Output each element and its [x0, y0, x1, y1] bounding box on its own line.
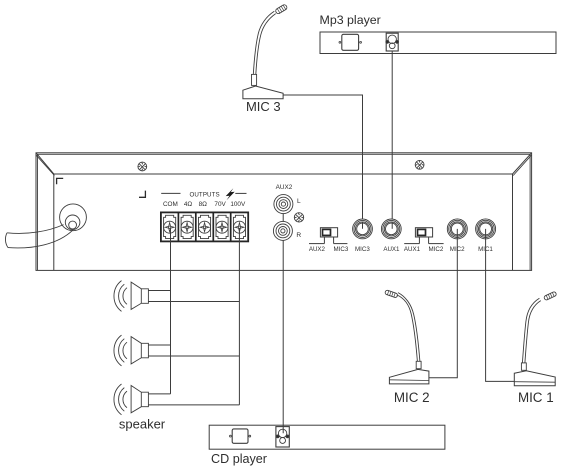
screw top-left	[138, 162, 147, 171]
svg-text:MIC 3: MIC 3	[246, 99, 281, 114]
microphone MIC 3 head	[275, 4, 288, 15]
CD player audio-out jack	[276, 427, 289, 447]
svg-text:MIC 2: MIC 2	[394, 390, 430, 405]
svg-text:speaker: speaker	[119, 416, 166, 431]
wire COM terminal to speakers bus A	[170, 228, 172, 394]
terminal cell 4 clamp	[216, 215, 228, 238]
svg-text:4Ω: 4Ω	[184, 201, 193, 208]
microphone MIC 1 base	[514, 371, 555, 386]
microphone MIC 2 gooseneck	[397, 295, 418, 362]
RCA jack AUX2 L	[274, 195, 293, 214]
wire end inside AUX1 jack	[391, 222, 393, 229]
terminal cell 5 clamp	[233, 215, 245, 238]
wire Mp3 player to AUX1 jack	[391, 51, 393, 229]
svg-text:MIC 1: MIC 1	[518, 390, 554, 405]
jack socket MIC3	[353, 219, 373, 239]
wire MIC2 jack to MIC 2	[429, 229, 457, 378]
amplifier chassis bevel top-left	[36, 153, 54, 174]
svg-text:Mp3 player: Mp3 player	[320, 13, 381, 27]
terminal cell 2 clamp	[181, 215, 193, 238]
svg-text:AUX1: AUX1	[404, 246, 421, 253]
power cord ribbon	[7, 225, 64, 234]
microphone MIC 1 gooseneck	[522, 298, 539, 363]
svg-text:CD player: CD player	[211, 452, 267, 466]
slide switch AUX2/MIC3	[320, 228, 337, 237]
svg-text:MIC3: MIC3	[355, 246, 370, 253]
svg-text:AUX2: AUX2	[309, 246, 326, 253]
svg-text:8Ω: 8Ω	[199, 201, 208, 208]
microphone MIC 3 gooseneck	[253, 11, 274, 74]
speaker 3 wire top	[148, 393, 170, 395]
terminal cell 1 screw	[164, 221, 176, 233]
speaker 2 sound waves	[123, 342, 127, 359]
speaker 2 wire bottom	[148, 355, 239, 357]
lightning bolt	[226, 188, 235, 200]
screw between RCA jacks	[294, 213, 303, 222]
wire MIC 3 to MIC3 jack	[283, 95, 362, 229]
microphone MIC 2 neck collar	[416, 361, 421, 368]
speaker 1 horn	[131, 282, 148, 309]
svg-text:MIC2: MIC2	[429, 246, 444, 253]
svg-text:AUX2: AUX2	[276, 184, 293, 191]
CD player box	[209, 425, 445, 449]
speaker 1 sound waves	[123, 288, 127, 305]
corner bracket mark top-left	[57, 178, 64, 184]
wire end inside MIC3 jack	[362, 222, 364, 229]
terminal cell 3 clamp	[199, 215, 211, 238]
microphone MIC 3 base	[243, 86, 283, 99]
terminal cell 1 clamp	[164, 215, 176, 238]
terminal cell 3 screw	[199, 221, 211, 233]
speaker 1 wire top	[148, 290, 170, 292]
Mp3 player USB connector	[342, 34, 359, 50]
svg-text:100V: 100V	[230, 201, 246, 208]
speaker terminal block	[161, 212, 248, 241]
terminal cell 2 screw	[181, 221, 193, 233]
microphone MIC 2 base	[389, 369, 429, 384]
speaker 3 sound waves	[123, 391, 127, 408]
Mp3 player audio-out jack	[386, 33, 399, 51]
amplifier chassis outer box	[36, 153, 532, 271]
microphone MIC 1 neck collar	[521, 363, 526, 370]
terminal labels COM 4ohm 8ohm 70V 100V	[163, 201, 246, 208]
OUTPUTS header dash right	[235, 192, 246, 194]
wire AUX2 L to R	[282, 214, 284, 222]
svg-text:AUX1: AUX1	[383, 246, 400, 253]
amplifier front face	[54, 174, 513, 270]
svg-text:L: L	[297, 198, 301, 205]
svg-text:MIC3: MIC3	[334, 246, 349, 253]
Mp3 player box	[320, 32, 556, 54]
jack socket AUX1	[381, 219, 401, 239]
microphone MIC 1 head	[544, 291, 557, 300]
microphone MIC 2 head	[385, 290, 398, 298]
amplifier chassis bevel top-right	[513, 153, 532, 174]
microphone MIC 3 neck collar	[252, 74, 257, 85]
terminal cell 4 screw	[216, 221, 228, 233]
svg-text:OUTPUTS: OUTPUTS	[189, 191, 219, 198]
speaker 2 wire top	[148, 344, 170, 346]
wire AUX2 R to CD player	[282, 240, 284, 433]
OUTPUTS header dash left	[161, 192, 180, 194]
svg-text:COM: COM	[163, 201, 178, 208]
terminal cell 5 screw	[233, 221, 245, 233]
svg-text:R: R	[296, 232, 301, 239]
speaker 1 wire bottom	[148, 301, 239, 303]
screw top-middle	[415, 160, 424, 169]
RCA jack AUX2 R	[273, 221, 292, 240]
CD player USB connector	[232, 429, 248, 443]
speaker 3 horn	[131, 386, 148, 413]
wire MIC1 jack to MIC 1	[486, 229, 515, 382]
jack socket MIC2	[447, 219, 467, 239]
power cord grommet	[60, 204, 87, 231]
speaker 3 wire bottom	[148, 404, 239, 406]
speaker 2 horn	[131, 337, 148, 364]
corner bracket mark inner	[139, 191, 145, 198]
jack socket MIC1	[476, 219, 496, 239]
wire 100V terminal to speakers bus B	[238, 228, 240, 405]
slide switch AUX1/MIC2	[415, 228, 432, 237]
svg-text:70V: 70V	[214, 201, 226, 208]
